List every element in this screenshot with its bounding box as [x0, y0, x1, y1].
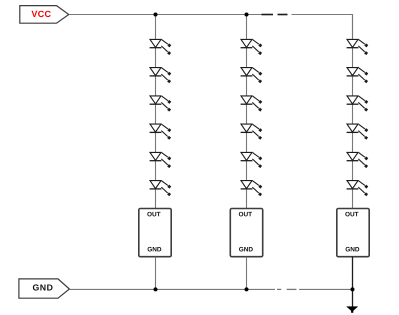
LED D5	[150, 152, 172, 168]
wire: U2 GND pin to rail	[246, 257, 248, 290]
LED D16	[347, 124, 369, 140]
LED D18	[347, 181, 369, 197]
wire: column 3 vertical	[352, 15, 354, 209]
wire: column 2 vertical	[246, 15, 248, 209]
junction col3/GND rail	[351, 287, 355, 291]
driver U3	[337, 209, 369, 257]
junction col2/VCC rail	[245, 13, 249, 17]
LED D9	[241, 96, 263, 112]
wire: GND rail dash 1	[277, 288, 281, 290]
LED D6	[150, 181, 172, 197]
wire: GND rail solid left segment	[69, 288, 275, 290]
wire: column 1 vertical	[155, 15, 157, 209]
GND flag outline	[19, 279, 70, 298]
ground arrow	[347, 307, 358, 312]
wire: VCC rail solid left segment	[69, 14, 273, 16]
LED D8	[241, 68, 263, 84]
LED D4	[150, 124, 172, 140]
LED D14	[347, 68, 369, 84]
wire: U3 GND pin through rail to ground	[352, 257, 354, 307]
wire: VCC rail dash 2	[278, 14, 288, 16]
junction col1/VCC rail	[154, 13, 158, 17]
wire: U1 GND pin to rail	[155, 257, 157, 290]
wire: VCC rail solid right segment with corner down to column 3	[292, 15, 353, 40]
junction col1/GND rail	[154, 287, 158, 291]
LED D15	[347, 96, 369, 112]
VCC flag outline	[20, 6, 69, 24]
wire: VCC rail dash 1	[262, 14, 274, 16]
LED D11	[241, 152, 263, 168]
LED D12	[241, 181, 263, 197]
LED D17	[347, 152, 369, 168]
VCC label text	[31, 11, 50, 17]
junction col2/GND rail	[245, 287, 249, 291]
wire: GND rail solid right segment	[299, 288, 352, 290]
GND label text	[33, 284, 53, 290]
power flag GND	[19, 279, 70, 298]
driver U1	[139, 209, 171, 257]
driver U2	[230, 209, 262, 257]
LED D3	[150, 96, 172, 112]
LED D1	[150, 39, 172, 55]
LED D10	[241, 124, 263, 140]
LED D13	[347, 39, 369, 55]
LED D7	[241, 39, 263, 55]
power flag VCC	[20, 6, 69, 24]
wire: GND rail dash 2	[287, 288, 297, 290]
LED D2	[150, 68, 172, 84]
